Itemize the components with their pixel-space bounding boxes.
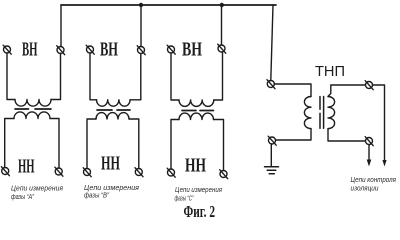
svg-text:фазы “А”: фазы “А”: [11, 194, 35, 201]
svg-text:Фиг. 2: Фиг. 2: [184, 202, 216, 221]
svg-text:НН: НН: [18, 156, 35, 178]
svg-text:ТНП: ТНП: [315, 63, 345, 80]
svg-text:Цепи контроля: Цепи контроля: [351, 177, 397, 184]
svg-text:ВН: ВН: [22, 39, 38, 61]
svg-text:ВН: ВН: [182, 39, 202, 61]
svg-text:Цепи измерения: Цепи измерения: [84, 185, 139, 192]
svg-text:фазы “В”: фазы “В”: [84, 193, 110, 200]
svg-text:НН: НН: [101, 153, 120, 175]
svg-text:Цепи измерения: Цепи измерения: [11, 186, 63, 193]
svg-text:изоляции: изоляции: [351, 186, 379, 193]
svg-text:Цепи измерения: Цепи измерения: [175, 187, 222, 194]
svg-text:НН: НН: [185, 155, 206, 177]
svg-text:ВН: ВН: [100, 39, 118, 61]
